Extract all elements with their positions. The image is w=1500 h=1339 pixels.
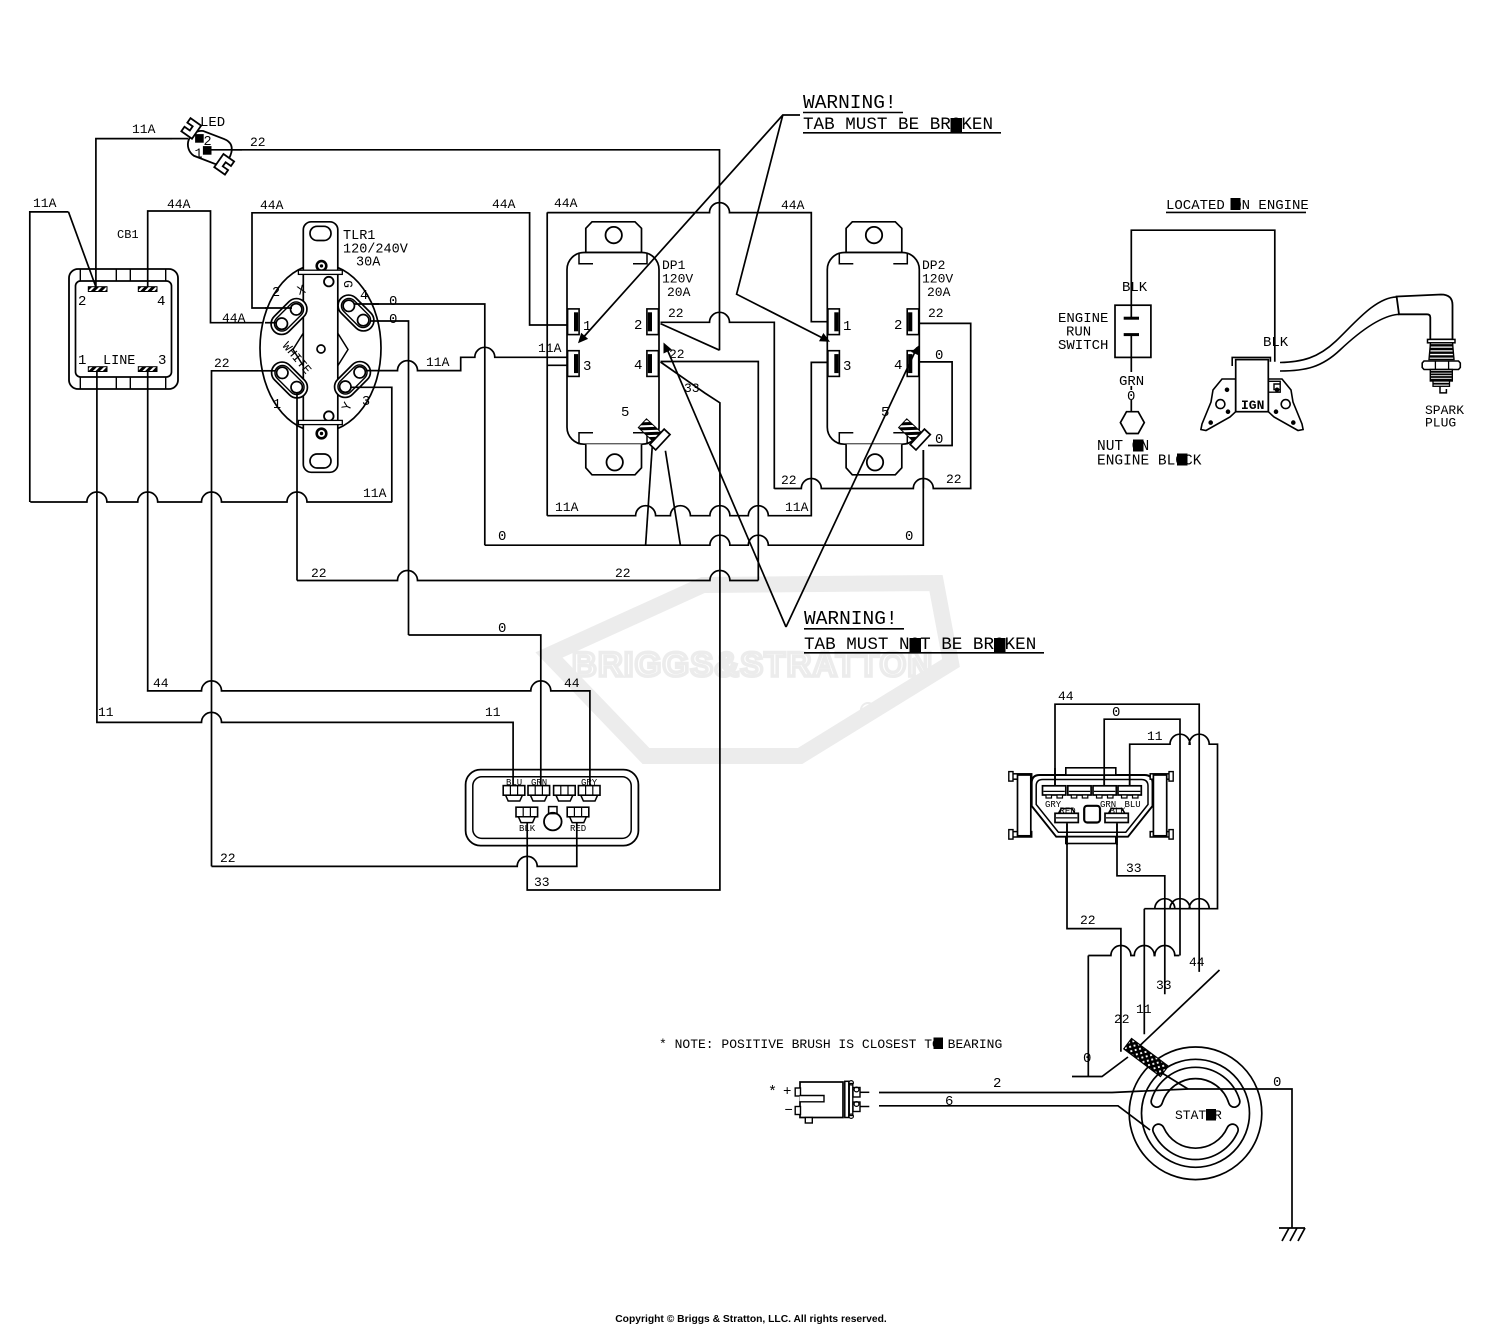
svg-text:0: 0: [935, 432, 943, 448]
svg-text:20A: 20A: [927, 285, 951, 300]
svg-text:CB1: CB1: [117, 228, 139, 242]
svg-text:5: 5: [621, 405, 629, 421]
bus 44 y=690.9: [147, 371, 590, 786]
svg-text:BLK: BLK: [1110, 807, 1127, 817]
wire 44A TLR1 slot2 to DP1 pin1: [252, 213, 568, 325]
spark plug: [1397, 295, 1453, 340]
svg-text:RED: RED: [1060, 807, 1076, 817]
bus 11A left y=502: [30, 492, 392, 502]
svg-text:1: 1: [843, 319, 851, 335]
svg-text:PLUG: PLUG: [1425, 416, 1456, 431]
spark plug cable: [1280, 297, 1397, 363]
svg-text:44A: 44A: [554, 196, 578, 211]
ignition module IGN: [1201, 379, 1236, 431]
warning-1 leader lines: [581, 115, 801, 341]
svg-text:11A: 11A: [538, 341, 562, 356]
wire dp1 screw v-right: [665, 451, 680, 545]
svg-text:44: 44: [564, 676, 580, 691]
wire 0 TLR1 slot4 upper: [354, 304, 485, 545]
svg-text:44A: 44A: [260, 198, 284, 213]
svg-text:22: 22: [1114, 1012, 1130, 1027]
wire 22 dp1-pin4: [661, 362, 759, 581]
svg-text:BLK: BLK: [1263, 335, 1289, 351]
wire 11A slot3-lower to bus: [351, 387, 392, 502]
svg-text:0: 0: [389, 312, 397, 328]
svg-text:11: 11: [485, 705, 501, 720]
wire 11 drop: [1143, 909, 1145, 1035]
svg-text:IGN: IGN: [1241, 398, 1264, 413]
wire dp1 pin3 stub: [547, 364, 567, 366]
wire diagonal into stator: [1131, 970, 1220, 1054]
svg-text:2: 2: [272, 286, 280, 301]
wire dp2 screw drop: [922, 450, 924, 489]
svg-text:22: 22: [668, 306, 684, 321]
svg-text:4: 4: [360, 289, 368, 304]
bus 11 y=722.4: [97, 371, 513, 786]
svg-text:44A: 44A: [492, 197, 516, 212]
watermark briggs-stratton logo: [549, 583, 951, 756]
stator: [1129, 1047, 1262, 1180]
wire 44A to DP2 pin1 + 11A drop: [547, 203, 827, 516]
svg-text:11: 11: [98, 705, 114, 720]
svg-text:*: *: [768, 1084, 777, 1101]
svg-text:11A: 11A: [33, 196, 57, 211]
svg-text:0: 0: [498, 621, 506, 637]
wire 0 dp2 pin4 to screw: [920, 362, 953, 446]
svg-text:SWITCH: SWITCH: [1058, 338, 1108, 354]
svg-text:1: 1: [195, 148, 203, 163]
svg-text:33: 33: [534, 875, 550, 890]
svg-text:2: 2: [78, 294, 86, 310]
svg-text:11A: 11A: [426, 355, 450, 370]
svg-text:3: 3: [583, 359, 591, 375]
svg-text:11: 11: [1147, 729, 1163, 744]
svg-text:+: +: [783, 1084, 791, 1100]
svg-text:0: 0: [935, 348, 943, 364]
svg-text:2: 2: [993, 1076, 1001, 1092]
wire 22 CB1 area to TLR1 slot1: [212, 371, 276, 867]
svg-text:22: 22: [781, 473, 797, 488]
svg-text:22: 22: [1080, 913, 1096, 928]
svg-text:0: 0: [389, 294, 397, 310]
svg-text:44: 44: [1189, 955, 1205, 970]
svg-text:0: 0: [498, 529, 506, 545]
svg-text:4: 4: [894, 358, 902, 374]
svg-text:−: −: [785, 1103, 793, 1119]
svg-text:0: 0: [905, 529, 913, 545]
cable hatch band: [1124, 1038, 1169, 1076]
svg-text:22: 22: [946, 472, 962, 487]
receptacle TLR1: [260, 264, 381, 432]
svg-text:2: 2: [634, 318, 642, 334]
svg-text:22: 22: [214, 356, 230, 371]
svg-text:33: 33: [1156, 978, 1172, 993]
svg-text:1: 1: [78, 353, 86, 369]
brush assembly: [800, 1082, 843, 1118]
svg-text:4: 4: [157, 294, 165, 310]
wire white slot1-lower drop: [296, 392, 298, 581]
funnel edge upper: [1072, 1057, 1128, 1077]
svg-text:Copyright © Briggs & Stratton,: Copyright © Briggs & Stratton, LLC. All …: [615, 1314, 887, 1325]
svg-text:0: 0: [1273, 1075, 1281, 1091]
bus 0 y=545.2: [485, 450, 924, 545]
warning-2 leader lines: [666, 346, 787, 628]
wire 11A LED to CB1 pin2: [96, 139, 172, 287]
circuit breaker CB1: [69, 269, 178, 389]
wire 11 J2-BLU: [1130, 734, 1218, 908]
svg-text:11A: 11A: [555, 500, 579, 515]
svg-text:30A: 30A: [356, 256, 381, 271]
svg-text:2: 2: [894, 318, 902, 334]
svg-text:22: 22: [250, 135, 266, 150]
svg-text:LED: LED: [200, 115, 225, 131]
bus 0 y=955.5: [1088, 946, 1179, 1077]
svg-text:3: 3: [843, 359, 851, 375]
svg-text:* NOTE: POSITIVE BRUSH IS CLOS: * NOTE: POSITIVE BRUSH IS CLOSEST TO BEA…: [659, 1037, 1002, 1052]
svg-text:11: 11: [1136, 1002, 1152, 1017]
svg-text:4: 4: [634, 358, 642, 374]
svg-text:44A: 44A: [167, 197, 191, 212]
svg-text:6: 6: [945, 1094, 953, 1110]
wire 22 dp1-pin2 to bus488: [661, 312, 775, 489]
svg-text:BLK: BLK: [1122, 280, 1148, 296]
svg-text:WARNING!: WARNING!: [803, 92, 897, 114]
wire 44 J2-GRY: [1055, 704, 1199, 972]
bus 11A y=515.7 to DP2 pin3: [547, 362, 827, 515]
svg-text:2: 2: [204, 135, 212, 150]
wire 6 brush to stator: [879, 1106, 1150, 1130]
svg-text:LINE: LINE: [103, 354, 135, 369]
svg-text:3: 3: [362, 395, 370, 410]
svg-text:11A: 11A: [132, 122, 156, 137]
svg-text:GRN: GRN: [531, 778, 547, 788]
svg-text:44: 44: [1058, 689, 1074, 704]
svg-text:0: 0: [1112, 705, 1120, 721]
svg-text:0: 0: [1127, 389, 1135, 405]
svg-text:WARNING!: WARNING!: [804, 608, 898, 630]
svg-text:3: 3: [158, 353, 166, 369]
wire 11A CB1 pin2 to left bus: [30, 212, 69, 502]
svg-text:22: 22: [220, 851, 236, 866]
svg-text:11A: 11A: [363, 486, 387, 501]
wire 11A TLR1 slot3 to DP1 pin3: [366, 347, 568, 370]
wire 0 J2-GRN: [1104, 719, 1180, 955]
svg-text:GRN: GRN: [1119, 374, 1144, 390]
cad-font filled O squares: [951, 119, 962, 133]
connector LED: [172, 117, 243, 176]
svg-text:33: 33: [1126, 861, 1142, 876]
svg-text:R: R: [865, 706, 872, 716]
svg-text:44: 44: [153, 676, 169, 691]
wire dp1 screw v-left: [646, 446, 653, 546]
wire 22 bottom to J1 RED: [212, 824, 577, 866]
ground symbol: [1279, 1227, 1305, 1229]
wire dp1 pin2 diagonal: [661, 324, 720, 351]
wire 22 LED to DP1 area vertical: [211, 150, 720, 350]
svg-text:BLU: BLU: [506, 778, 522, 788]
wire 0 mid horizontal y=635: [409, 635, 541, 786]
svg-text:22: 22: [615, 566, 631, 581]
wire BLK engine-run-switch to IGN: [1131, 230, 1275, 362]
connector J1: [466, 770, 639, 846]
svg-text:44A: 44A: [222, 311, 246, 326]
bus 22 y=488 dp1 to dp2: [774, 323, 970, 488]
wire 22 J2-RED: [1067, 824, 1121, 1052]
svg-text:44A: 44A: [781, 198, 805, 213]
receptacle DP1: [567, 222, 670, 475]
wire 2 brush to stator: [879, 1089, 1292, 1228]
nut on engine block: [1120, 412, 1144, 434]
connector J2: [1032, 775, 1153, 837]
svg-text:22: 22: [311, 566, 327, 581]
svg-text:1: 1: [273, 398, 281, 413]
wire 44A CB1 pin4 riser: [148, 211, 276, 323]
svg-text:0: 0: [1083, 1051, 1091, 1067]
wire 33 J1 BLK to DP1 pin4 riser: [527, 362, 720, 890]
wire 0 TLR1 slot4 lower: [370, 321, 409, 635]
wire 33 J2-BLK: [1117, 824, 1165, 994]
engine run switch: [1115, 305, 1151, 357]
bus 22 y=580 tlr1-slot1 to dp1-pin4-wire: [297, 571, 758, 581]
svg-text:20A: 20A: [667, 285, 691, 300]
receptacle DP2: [827, 222, 930, 475]
svg-text:11A: 11A: [785, 500, 809, 515]
svg-text:G: G: [340, 280, 355, 288]
svg-text:BLU: BLU: [1125, 800, 1141, 810]
svg-text:RED: RED: [570, 824, 586, 834]
svg-text:22: 22: [928, 306, 944, 321]
